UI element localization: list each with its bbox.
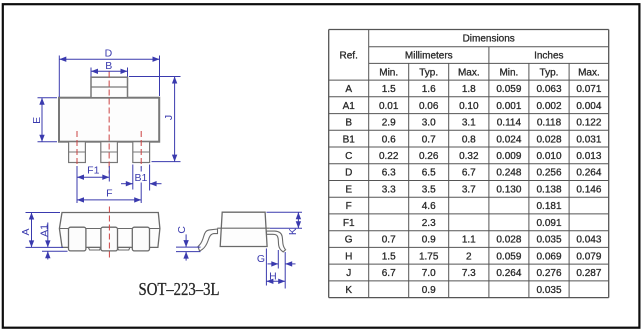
- svg-text:3.3: 3.3: [382, 184, 396, 195]
- svg-text:A: A: [345, 84, 352, 95]
- svg-text:7.3: 7.3: [462, 268, 476, 279]
- svg-text:H: H: [345, 251, 352, 262]
- svg-text:3.5: 3.5: [422, 184, 436, 195]
- svg-text:Typ.: Typ.: [419, 67, 438, 78]
- dimension F: [140, 166, 142, 172]
- front view lead 1: [69, 227, 86, 251]
- svg-text:0.059: 0.059: [496, 84, 521, 95]
- svg-text:K: K: [287, 228, 299, 235]
- svg-text:F1: F1: [87, 164, 99, 176]
- svg-text:0.26: 0.26: [419, 151, 439, 162]
- front view lead 3: [132, 227, 149, 251]
- svg-text:C: C: [176, 226, 188, 234]
- svg-text:2.3: 2.3: [422, 218, 436, 229]
- svg-text:Typ.: Typ.: [540, 67, 559, 78]
- svg-text:0.122: 0.122: [576, 118, 601, 129]
- svg-text:0.118: 0.118: [537, 118, 562, 129]
- svg-text:0.091: 0.091: [536, 218, 561, 229]
- dimension E: [38, 97, 58, 99]
- svg-text:0.063: 0.063: [536, 84, 561, 95]
- dimension B: [90, 68, 92, 77]
- svg-text:0.32: 0.32: [459, 151, 479, 162]
- svg-text:0.130: 0.130: [496, 184, 521, 195]
- svg-text:0.146: 0.146: [576, 184, 601, 195]
- svg-text:2.9: 2.9: [382, 118, 396, 129]
- svg-text:F1: F1: [343, 218, 355, 229]
- dimension B1: [132, 165, 134, 190]
- svg-text:0.024: 0.024: [496, 134, 521, 145]
- svg-text:0.059: 0.059: [496, 251, 521, 262]
- top view tab: [91, 77, 128, 98]
- svg-text:0.028: 0.028: [536, 134, 561, 145]
- svg-text:3.0: 3.0: [422, 118, 436, 129]
- svg-text:1.5: 1.5: [382, 251, 396, 262]
- svg-text:Min.: Min.: [379, 67, 398, 78]
- front view lead 2: [101, 227, 118, 251]
- svg-text:1.5: 1.5: [382, 84, 396, 95]
- table grid: [329, 30, 609, 298]
- svg-text:4.6: 4.6: [422, 201, 436, 212]
- svg-text:0.264: 0.264: [576, 168, 601, 179]
- dimension A1: [47, 223, 49, 248]
- svg-text:Ref.: Ref.: [340, 50, 358, 61]
- svg-text:Min.: Min.: [499, 67, 518, 78]
- svg-text:0.138: 0.138: [536, 184, 561, 195]
- svg-text:1.8: 1.8: [462, 84, 476, 95]
- svg-text:A1: A1: [343, 101, 356, 112]
- svg-text:J: J: [346, 268, 351, 279]
- svg-text:6.5: 6.5: [422, 168, 436, 179]
- front view centerline: [108, 207, 110, 259]
- svg-text:1.6: 1.6: [422, 84, 436, 95]
- svg-text:3.1: 3.1: [462, 118, 476, 129]
- dimension G: [277, 250, 279, 269]
- svg-text:D: D: [105, 47, 113, 59]
- svg-text:2: 2: [466, 251, 472, 262]
- svg-text:0.7: 0.7: [422, 134, 436, 145]
- svg-text:Max.: Max.: [458, 67, 480, 78]
- dimension H: [265, 249, 267, 286]
- top view body: [59, 98, 159, 142]
- dimension J: [129, 76, 181, 78]
- svg-text:0.071: 0.071: [576, 84, 601, 95]
- front view bump 1: [88, 247, 100, 250]
- svg-text:7.0: 7.0: [422, 268, 436, 279]
- dimension K: [267, 211, 303, 213]
- svg-text:H: H: [269, 270, 277, 282]
- svg-text:B: B: [345, 118, 352, 129]
- svg-text:0.001: 0.001: [496, 101, 521, 112]
- svg-text:0.035: 0.035: [536, 285, 561, 296]
- side view parting line: [217, 227, 270, 229]
- svg-text:0.01: 0.01: [379, 101, 399, 112]
- svg-text:0.9: 0.9: [422, 285, 436, 296]
- svg-text:K: K: [345, 285, 352, 296]
- svg-text:B: B: [105, 60, 112, 72]
- svg-text:0.181: 0.181: [536, 201, 561, 212]
- front view bump 2: [117, 247, 130, 250]
- svg-text:E: E: [345, 184, 352, 195]
- top view lead 2: [101, 142, 118, 163]
- svg-text:0.069: 0.069: [536, 251, 561, 262]
- svg-text:B1: B1: [134, 172, 147, 184]
- svg-text:A: A: [20, 228, 32, 235]
- dimension D: [58, 56, 60, 98]
- svg-text:0.7: 0.7: [382, 235, 396, 246]
- front view body: [59, 213, 159, 248]
- side view left lead: [198, 229, 218, 251]
- svg-text:A1: A1: [38, 224, 50, 237]
- svg-text:6.3: 6.3: [382, 168, 396, 179]
- top view lead 3: [133, 142, 150, 163]
- svg-text:0.287: 0.287: [576, 268, 601, 279]
- side view right lead: [267, 231, 286, 252]
- svg-text:D: D: [345, 168, 352, 179]
- svg-text:F: F: [106, 187, 112, 199]
- svg-text:0.06: 0.06: [419, 101, 439, 112]
- svg-text:E: E: [31, 117, 43, 124]
- svg-text:0.256: 0.256: [536, 168, 561, 179]
- svg-text:0.004: 0.004: [576, 101, 601, 112]
- svg-text:1.1: 1.1: [462, 235, 476, 246]
- svg-text:C: C: [345, 151, 352, 162]
- top view lead 1: [69, 142, 86, 163]
- side view body: [220, 212, 267, 246]
- svg-text:0.264: 0.264: [496, 268, 521, 279]
- dimension C: [185, 234, 187, 247]
- svg-text:Max.: Max.: [578, 67, 600, 78]
- svg-text:J: J: [163, 115, 175, 120]
- svg-text:Millimeters: Millimeters: [405, 51, 453, 62]
- svg-text:0.010: 0.010: [536, 151, 561, 162]
- svg-text:0.114: 0.114: [497, 118, 522, 129]
- svg-text:B1: B1: [343, 134, 356, 145]
- svg-text:0.035: 0.035: [536, 235, 561, 246]
- svg-text:0.6: 0.6: [382, 134, 396, 145]
- svg-text:0.043: 0.043: [576, 235, 601, 246]
- top view centerline middle: [108, 72, 110, 174]
- dimension F1: [76, 166, 78, 203]
- svg-text:G: G: [345, 235, 353, 246]
- svg-text:Dimensions: Dimensions: [463, 34, 515, 45]
- svg-text:0.013: 0.013: [576, 151, 601, 162]
- dimension A: [26, 212, 61, 214]
- svg-text:Inches: Inches: [534, 51, 563, 62]
- svg-text:6.7: 6.7: [382, 268, 396, 279]
- svg-text:F: F: [346, 201, 352, 212]
- svg-text:3.7: 3.7: [462, 184, 476, 195]
- top view centerline lead3: [140, 131, 142, 168]
- svg-text:0.276: 0.276: [536, 268, 561, 279]
- svg-text:0.248: 0.248: [496, 168, 521, 179]
- svg-text:SOT–223–3L: SOT–223–3L: [139, 279, 220, 299]
- svg-text:0.10: 0.10: [459, 101, 479, 112]
- svg-text:G: G: [257, 253, 265, 265]
- svg-text:0.028: 0.028: [496, 235, 521, 246]
- svg-text:6.7: 6.7: [462, 168, 476, 179]
- svg-text:0.002: 0.002: [536, 101, 561, 112]
- svg-text:0.009: 0.009: [496, 151, 521, 162]
- top view centerline lead1: [76, 131, 78, 168]
- svg-text:0.22: 0.22: [379, 151, 399, 162]
- svg-text:0.8: 0.8: [462, 134, 476, 145]
- svg-text:0.9: 0.9: [422, 235, 436, 246]
- svg-text:0.031: 0.031: [576, 134, 601, 145]
- svg-text:0.079: 0.079: [576, 251, 601, 262]
- svg-text:1.75: 1.75: [419, 251, 439, 262]
